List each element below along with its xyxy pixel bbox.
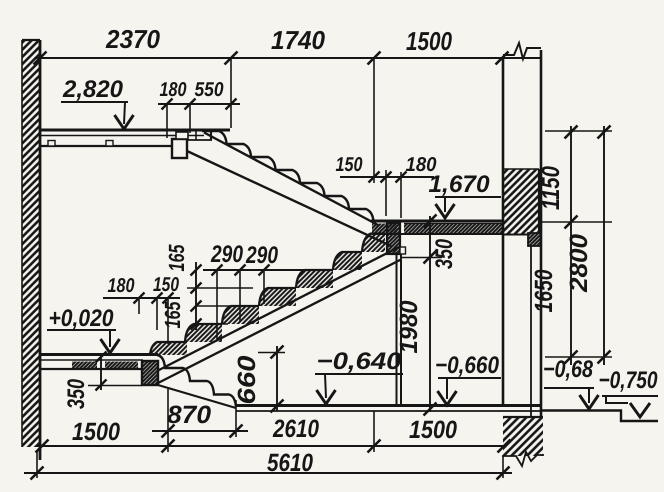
wall inner line below landing <box>530 246 532 417</box>
svg-text:180: 180 <box>160 79 187 101</box>
landing edge beam <box>172 139 187 158</box>
dim 660 <box>233 346 285 413</box>
landing edge beam under mid landing <box>387 223 406 254</box>
level mark -0,750 <box>599 367 659 417</box>
svg-text:180: 180 <box>108 275 135 297</box>
level mark -0,640 <box>315 348 403 404</box>
upper floor landing slab <box>40 130 230 146</box>
intermediate landing slab (1.670) <box>371 221 503 234</box>
upper stair flight (7 steps) <box>187 131 391 246</box>
joint detail above beam <box>176 131 212 140</box>
svg-text:2370: 2370 <box>105 24 160 54</box>
svg-text:−0,68: −0,68 <box>543 356 594 383</box>
svg-text:1740: 1740 <box>271 25 326 55</box>
svg-text:−0,640: −0,640 <box>317 348 403 375</box>
svg-text:1980: 1980 <box>395 300 423 353</box>
svg-text:−0,660: −0,660 <box>435 352 500 379</box>
svg-text:1500: 1500 <box>406 26 452 56</box>
svg-text:150: 150 <box>336 154 363 176</box>
svg-text:1500: 1500 <box>409 416 457 444</box>
left wall (hatched masonry) <box>22 40 40 460</box>
first floor slab <box>40 355 158 370</box>
svg-text:1650: 1650 <box>530 269 558 312</box>
svg-text:550: 550 <box>195 79 224 101</box>
svg-text:5610: 5610 <box>267 449 313 477</box>
svg-text:−0,750: −0,750 <box>599 367 659 394</box>
level mark 1,670 <box>429 171 502 218</box>
dim 350 at mid landing <box>402 239 458 269</box>
svg-text:2800: 2800 <box>565 234 593 293</box>
svg-text:150: 150 <box>153 274 179 296</box>
dims 180 / 150 mid left <box>103 274 180 344</box>
bottom dimension row 1500/2610/1500 <box>36 411 511 453</box>
dim 350 left <box>63 352 142 410</box>
svg-text:290: 290 <box>210 241 243 268</box>
level mark -0,660 <box>435 352 501 405</box>
right wall hatched section above landing <box>504 169 539 235</box>
svg-text:290: 290 <box>245 242 278 269</box>
wall line below mid landing <box>396 252 398 406</box>
wall notch under landing <box>528 233 541 246</box>
floor edge beam <box>142 361 158 385</box>
lower stair flight (hatched steps) <box>150 234 401 384</box>
dims 165 165 vertical <box>160 244 253 330</box>
svg-text:165: 165 <box>160 301 185 329</box>
svg-text:165: 165 <box>164 244 189 272</box>
top dimension line <box>34 52 541 184</box>
svg-text:1500: 1500 <box>72 418 120 446</box>
svg-text:2610: 2610 <box>272 415 319 443</box>
svg-text:350: 350 <box>63 379 90 409</box>
dims 180 / 550 <box>158 79 240 138</box>
outside ground level <box>541 411 658 422</box>
dims 290 290 <box>203 241 315 340</box>
dims 150 / 180 upper right <box>336 154 437 218</box>
basement floor slab <box>236 406 541 412</box>
dim 870 <box>152 389 248 452</box>
svg-text:+0,020: +0,020 <box>49 305 115 332</box>
svg-text:1150: 1150 <box>537 166 565 210</box>
level mark 2,820 <box>61 76 134 129</box>
svg-text:1,670: 1,670 <box>429 171 491 198</box>
bottom dimension row 5610 <box>24 449 512 480</box>
level mark -0,68 <box>543 356 599 409</box>
right wall (cut, with break symbol) <box>503 43 541 417</box>
svg-text:2,820: 2,820 <box>62 76 124 103</box>
svg-text:660: 660 <box>233 355 261 404</box>
foundation block (hatched) <box>502 417 544 466</box>
dim 1980 <box>395 215 437 416</box>
level mark +0,020 <box>47 305 120 353</box>
svg-text:350: 350 <box>431 239 458 269</box>
right side vertical dims 1150 / 1650 / 2800 <box>530 126 612 366</box>
small steps down to basement floor <box>157 355 236 408</box>
